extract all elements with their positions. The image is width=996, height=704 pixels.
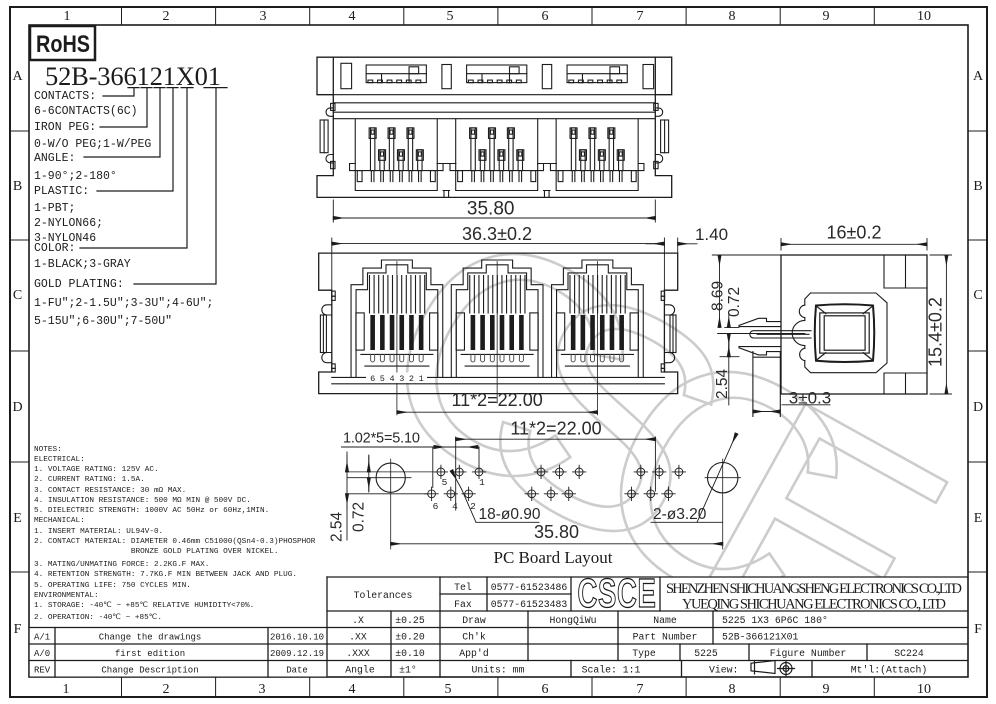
svg-text:8: 8 — [729, 682, 736, 697]
svg-text:Draw: Draw — [462, 615, 486, 626]
side view square socket — [815, 304, 875, 362]
svg-text:35.80: 35.80 — [467, 199, 515, 220]
top view body outline — [317, 57, 672, 197]
svg-text:Scale: 1:1: Scale: 1:1 — [582, 665, 641, 676]
svg-text:2009.12.19: 2009.12.19 — [270, 649, 324, 659]
svg-text:5: 5 — [447, 9, 454, 24]
svg-text:MECHANICAL:: MECHANICAL: — [34, 517, 85, 525]
svg-text:±1°: ±1° — [399, 665, 417, 676]
svg-text:A/1: A/1 — [34, 633, 50, 643]
svg-text:1. STORAGE: -40℃ ~ +85℃ RELATI: 1. STORAGE: -40℃ ~ +85℃ RELATIVE HUMIDIT… — [34, 601, 254, 610]
svg-text:2: 2 — [163, 682, 170, 697]
svg-text:B: B — [13, 179, 22, 194]
top view left edge tab — [320, 103, 335, 168]
svg-text:2.54: 2.54 — [329, 511, 346, 542]
pcb layout construction lines — [347, 459, 741, 549]
svg-text:6: 6 — [370, 374, 375, 384]
svg-text:GOLD PLATING:: GOLD PLATING: — [34, 278, 124, 291]
svg-text:IRON PEG:: IRON PEG: — [34, 121, 96, 134]
part number digit leader lines — [80, 88, 227, 284]
svg-text:D: D — [12, 400, 22, 415]
svg-text:HongQiWu: HongQiWu — [549, 615, 596, 626]
svg-text:Change the drawings: Change the drawings — [99, 633, 202, 643]
svg-text:1. VOLTAGE RATING: 125V AC.: 1. VOLTAGE RATING: 125V AC. — [34, 466, 159, 474]
dimension 36.3±0.2 — [332, 238, 665, 291]
dimension 2.54 side — [720, 334, 739, 406]
title block text — [345, 582, 927, 676]
svg-text:1-BLACK;3-GRAY: 1-BLACK;3-GRAY — [34, 258, 131, 271]
svg-text:1: 1 — [479, 477, 485, 488]
svg-text:F: F — [974, 622, 982, 637]
dimension 35.80 — [333, 200, 655, 222]
dimension 11*2=22.00 front — [397, 411, 598, 413]
top view front port cells — [350, 119, 644, 197]
svg-text:3. CONTACT RESISTANCE: 30 mΩ M: 3. CONTACT RESISTANCE: 30 mΩ MAX. — [34, 487, 186, 495]
svg-text:5. OPERATING LIFE: 750 CYCLES: 5. OPERATING LIFE: 750 CYCLES MIN. — [34, 582, 191, 590]
svg-text:16±0.2: 16±0.2 — [827, 223, 882, 243]
svg-text:E: E — [13, 511, 22, 526]
front view left side tab — [320, 291, 335, 372]
svg-text:Figure Number: Figure Number — [770, 648, 846, 659]
svg-text:2-NYLON66;: 2-NYLON66; — [34, 217, 103, 230]
front view port 1 — [351, 260, 443, 377]
svg-text:2. OPERATION: -40℃ ~ +85℃.: 2. OPERATION: -40℃ ~ +85℃. — [34, 613, 162, 622]
svg-text:5: 5 — [442, 477, 448, 488]
label 2-ø3.20 — [651, 434, 737, 523]
svg-text:±0.10: ±0.10 — [395, 648, 425, 659]
svg-text:PLASTIC:: PLASTIC: — [34, 185, 89, 198]
svg-text:ENVIRONMENTAL:: ENVIRONMENTAL: — [34, 592, 99, 600]
svg-text:2. CURRENT RATING: 1.5A.: 2. CURRENT RATING: 1.5A. — [34, 476, 145, 484]
third angle projection symbol — [751, 661, 795, 677]
svg-text:18-ø0.90: 18-ø0.90 — [479, 506, 541, 523]
svg-text:Tel: Tel — [454, 582, 472, 593]
pin holes group 3 — [625, 465, 686, 500]
svg-text:BRONZE GOLD PLATING OVER NICKE: BRONZE GOLD PLATING OVER NICKEL. — [34, 548, 279, 556]
svg-text:REV: REV — [34, 666, 51, 676]
svg-text:Tolerances: Tolerances — [354, 590, 413, 601]
svg-text:Change Description: Change Description — [101, 666, 198, 676]
revision table — [29, 628, 327, 678]
svg-text:1.02*5=5.10: 1.02*5=5.10 — [343, 431, 420, 447]
svg-text:C: C — [973, 288, 982, 303]
svg-text:Date: Date — [286, 666, 308, 676]
dimension 11*2=22.00 pcb — [456, 437, 656, 510]
svg-text:0.72: 0.72 — [726, 287, 743, 317]
title block grid — [327, 577, 968, 677]
mounting hole left — [376, 463, 405, 492]
svg-text:SC224: SC224 — [894, 648, 924, 659]
svg-text:52B-366121X01: 52B-366121X01 — [45, 61, 221, 91]
svg-text:Units: mm: Units: mm — [472, 665, 525, 676]
svg-text:A/0: A/0 — [34, 649, 50, 659]
left column option text — [34, 90, 213, 328]
dimension 0.72 — [718, 314, 805, 348]
svg-text:first edition: first edition — [115, 649, 185, 659]
svg-text:3±0.3: 3±0.3 — [789, 388, 831, 407]
dimension 3±0.3 — [753, 405, 830, 412]
svg-text:1. INSERT MATERIAL: UL94V-0.: 1. INSERT MATERIAL: UL94V-0. — [34, 528, 163, 536]
svg-text:3: 3 — [260, 9, 267, 24]
svg-text:±0.25: ±0.25 — [395, 615, 425, 626]
top view port windows and ticks — [366, 65, 627, 83]
front view right side tab — [661, 291, 676, 372]
svg-text:36.3±0.2: 36.3±0.2 — [462, 224, 532, 244]
svg-text:5. DIELECTRIC STRENGTH: 1000V: 5. DIELECTRIC STRENGTH: 1000V AC 50Hz or… — [34, 507, 269, 515]
pin holes group 1 — [425, 465, 486, 500]
svg-text:4: 4 — [389, 374, 394, 384]
svg-text:2. CONTACT MATERIAL: DIAMETER: 2. CONTACT MATERIAL: DIAMETER 0.46mm C51… — [34, 538, 316, 546]
svg-text:NOTES:: NOTES: — [34, 446, 62, 454]
side view jack housing octagon — [792, 293, 887, 373]
pcb pin number labels — [433, 477, 486, 512]
RoHS logo — [30, 26, 95, 60]
svg-text:4: 4 — [349, 682, 356, 697]
dimension 35.80 pcb — [391, 543, 723, 545]
svg-text:F: F — [14, 622, 22, 637]
dimension 1.02*5=5.10 — [342, 447, 480, 488]
svg-text:9: 9 — [823, 682, 830, 697]
svg-text:35.80: 35.80 — [534, 522, 579, 542]
zone numbers bottom — [63, 682, 932, 697]
svg-text:10: 10 — [917, 682, 931, 697]
zone numbers top — [64, 9, 932, 24]
svg-text:ANGLE:: ANGLE: — [34, 152, 75, 165]
svg-text:Mt'l:(Attach): Mt'l:(Attach) — [851, 665, 927, 676]
top view rear band horizontals — [333, 95, 655, 119]
svg-text:±0.20: ±0.20 — [395, 632, 425, 643]
svg-text:YUEQING SHICHUANG ELECTRONICS: YUEQING SHICHUANG ELECTRONICS CO., LTD — [682, 597, 946, 613]
svg-text:8.69: 8.69 — [710, 281, 727, 311]
svg-text:1: 1 — [63, 682, 70, 697]
svg-text:11*2=22.00: 11*2=22.00 — [451, 390, 542, 410]
svg-text:Ch'k: Ch'k — [462, 632, 486, 643]
svg-text:COLOR:: COLOR: — [34, 242, 75, 255]
svg-text:CSCE: CSCE — [578, 571, 657, 617]
svg-text:E: E — [974, 511, 983, 526]
side view body — [781, 255, 927, 394]
svg-text:0577-61523486: 0577-61523486 — [491, 582, 568, 593]
svg-text:11*2=22.00: 11*2=22.00 — [510, 419, 601, 439]
dimension 16±0.2 — [781, 239, 927, 251]
svg-text:Part Number: Part Number — [633, 632, 698, 643]
svg-text:Angle: Angle — [345, 665, 375, 676]
svg-text:6: 6 — [542, 682, 549, 697]
svg-text:PC Board Layout: PC Board Layout — [494, 548, 613, 567]
title block white backing — [327, 577, 967, 676]
svg-text:6: 6 — [542, 9, 549, 24]
svg-text:Type: Type — [632, 648, 656, 659]
svg-text:5: 5 — [445, 682, 452, 697]
svg-text:1-FU″;2-1.5U″;3-3U″;4-6U″;: 1-FU″;2-1.5U″;3-3U″;4-6U″; — [34, 297, 213, 310]
dimension 8.69 — [712, 255, 781, 327]
svg-text:2-ø3.20: 2-ø3.20 — [653, 506, 707, 523]
svg-text:SHENZHEN SHICHUANGSHENG ELECTR: SHENZHEN SHICHUANGSHENG ELECTRONICS CO.,… — [666, 581, 962, 597]
svg-text:A: A — [973, 69, 984, 84]
svg-text:3: 3 — [259, 682, 266, 697]
svg-text:B: B — [973, 179, 982, 194]
svg-text:1: 1 — [419, 374, 424, 384]
svg-text:ELECTRICAL:: ELECTRICAL: — [34, 456, 85, 464]
svg-text:RoHS: RoHS — [36, 31, 90, 58]
svg-text:View:: View: — [709, 665, 738, 676]
side view solder leg — [753, 352, 780, 417]
side view corner blocks — [884, 255, 927, 394]
pin holes group 2 — [525, 465, 586, 500]
svg-text:0577-61523483: 0577-61523483 — [491, 599, 568, 610]
svg-text:7: 7 — [637, 682, 644, 697]
svg-text:5225: 5225 — [694, 648, 718, 659]
svg-text:3: 3 — [399, 374, 404, 384]
revision table text — [34, 633, 324, 676]
svg-text:5-15U″;6-30U″;7-50U″: 5-15U″;6-30U″;7-50U″ — [34, 315, 172, 328]
watermark CSCE — [327, 155, 996, 704]
CSCE logo — [578, 571, 657, 617]
side view latch prongs — [739, 318, 811, 355]
svg-text:7: 7 — [637, 9, 644, 24]
svg-text:5: 5 — [380, 374, 385, 384]
svg-text:App'd: App'd — [459, 648, 489, 659]
front view body outline with corner flanges — [319, 253, 678, 394]
svg-text:9: 9 — [823, 9, 830, 24]
svg-text:.X: .X — [352, 615, 364, 626]
dimension 15.4±0.2 — [930, 255, 952, 394]
svg-text:0-W/O PEG;1-W/PEG: 0-W/O PEG;1-W/PEG — [34, 138, 151, 151]
svg-text:1.40: 1.40 — [695, 225, 728, 244]
zone letters right — [973, 69, 984, 637]
svg-text:.XX: .XX — [349, 632, 367, 643]
svg-text:6-6CONTACTS(6C): 6-6CONTACTS(6C) — [34, 105, 138, 118]
svg-text:4. INSULATION RESISTANCE: 500: 4. INSULATION RESISTANCE: 500 MΩ MIN @ 5… — [34, 497, 251, 505]
svg-text:1: 1 — [64, 9, 71, 24]
front view bottom horizontals — [332, 377, 665, 383]
svg-text:Fax: Fax — [454, 599, 472, 610]
svg-text:8: 8 — [729, 9, 736, 24]
top view right edge tab — [654, 103, 669, 168]
svg-text:Name: Name — [653, 615, 677, 626]
svg-text:A: A — [12, 69, 23, 84]
svg-text:15.4±0.2: 15.4±0.2 — [926, 297, 946, 367]
top view rear slot holes — [341, 63, 654, 88]
company names — [666, 581, 962, 613]
zone letters left — [12, 69, 23, 637]
dimension 2.54 pcb — [346, 452, 348, 540]
svg-text:4: 4 — [349, 9, 356, 24]
svg-text:4. RETENTION STRENGTH: 7.7KG.F: 4. RETENTION STRENGTH: 7.7KG.F MIN BETWE… — [34, 571, 297, 579]
svg-text:2: 2 — [163, 9, 170, 24]
notes text — [34, 446, 316, 622]
svg-text:1-90°;2-180°: 1-90°;2-180° — [34, 170, 117, 183]
svg-text:52B-366121X01: 52B-366121X01 — [722, 632, 799, 643]
svg-text:3. MATING/UNMATING FORCE: 2.2K: 3. MATING/UNMATING FORCE: 2.2KG.F MAX. — [34, 561, 209, 569]
front view port center lines — [397, 262, 598, 415]
svg-text:6: 6 — [433, 501, 439, 512]
mounting hole right — [708, 463, 738, 493]
svg-text:1-PBT;: 1-PBT; — [34, 202, 75, 215]
label 18-ø0.90 — [452, 471, 540, 523]
svg-text:4: 4 — [452, 501, 458, 512]
svg-text:2: 2 — [409, 374, 414, 384]
svg-text:10: 10 — [917, 9, 931, 24]
svg-text:5225 1X3 6P6C 180°: 5225 1X3 6P6C 180° — [722, 615, 828, 626]
svg-text:D: D — [973, 400, 983, 415]
dimension 0.72 pcb — [368, 455, 370, 492]
svg-text:2016.10.10: 2016.10.10 — [270, 633, 324, 643]
svg-text:0.72: 0.72 — [351, 502, 368, 532]
svg-text:CONTACTS:: CONTACTS: — [34, 90, 96, 103]
pin numbers 654321 — [366, 373, 427, 384]
svg-text:.XXX: .XXX — [346, 648, 370, 659]
dimension 1.40 — [646, 238, 697, 253]
svg-text:2.54: 2.54 — [714, 368, 731, 399]
svg-text:C: C — [13, 288, 22, 303]
